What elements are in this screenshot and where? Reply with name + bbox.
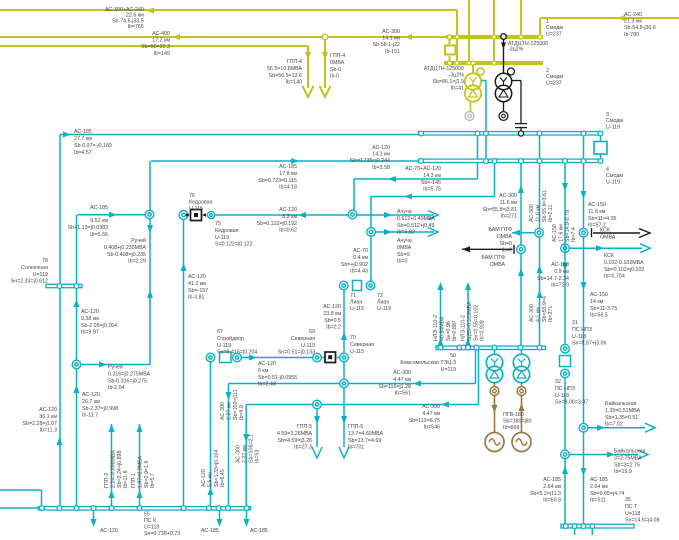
svg-text:Ib=561: Ib=561 xyxy=(395,391,411,397)
svg-text:Ib=60.9: Ib=60.9 xyxy=(543,498,561,504)
svg-text:U-119: U-119 xyxy=(606,179,620,185)
svg-text:13.7=4.69МВА: 13.7=4.69МВА xyxy=(348,431,383,437)
svg-text:АТДЦТН-125000: АТДЦТН-125000 xyxy=(424,66,464,72)
svg-text:АС-185: АС-185 xyxy=(279,164,297,170)
svg-text:76: 76 xyxy=(189,193,195,199)
svg-text:2.27 км: 2.27 км xyxy=(242,445,248,463)
svg-text:1.07=0.9МВА: 1.07=0.9МВА xyxy=(137,455,143,488)
svg-text:4.47 км: 4.47 км xyxy=(422,411,440,417)
svg-text:Ручей: Ручей xyxy=(108,364,123,371)
svg-text:Sн=2.33=j0.612: Sн=2.33=j0.612 xyxy=(11,279,48,285)
svg-text:-3ц2%: -3ц2% xyxy=(449,73,465,79)
svg-text:Ib=9.97: Ib=9.97 xyxy=(81,330,99,336)
svg-text:Sb-54.8-j30.6: Sb-54.8-j30.6 xyxy=(624,25,656,31)
svg-text:Sb=180=j80: Sb=180=j80 xyxy=(503,418,532,424)
svg-text:21.3 км: 21.3 км xyxy=(624,19,642,25)
svg-text:Ib=271: Ib=271 xyxy=(548,306,554,322)
svg-text:Sb=4.59=j3.26: Sb=4.59=j3.26 xyxy=(278,438,313,444)
svg-text:Ib=5.56: Ib=5.56 xyxy=(90,232,108,238)
svg-text:Кедровая: Кедровая xyxy=(215,228,239,234)
svg-text:Ib=27.3: Ib=27.3 xyxy=(294,445,312,451)
svg-text:50: 50 xyxy=(450,353,456,359)
svg-text:Sb-0: Sb-0 xyxy=(330,67,341,73)
svg-text:Sb=108=2.1: Sb=108=2.1 xyxy=(248,434,254,463)
svg-text:Смодм: Смодм xyxy=(606,118,623,124)
svg-text:Ib-151: Ib-151 xyxy=(385,49,400,55)
svg-text:26.7 км: 26.7 км xyxy=(82,399,100,405)
svg-text:Ib-780: Ib-780 xyxy=(624,32,639,38)
svg-text:U=119: U=119 xyxy=(441,367,456,373)
svg-text:17.6 км: 17.6 км xyxy=(558,224,564,242)
svg-text:АС-300: АС-300 xyxy=(529,304,535,322)
svg-text:АС-120: АС-120 xyxy=(372,145,390,151)
svg-text:Sн=0.51=j0.133: Sн=0.51=j0.133 xyxy=(278,350,315,356)
svg-text:ГПП-1: ГПП-1 xyxy=(131,473,137,488)
svg-text:55: 55 xyxy=(144,512,150,518)
svg-text:Sb=-145: Sb=-145 xyxy=(421,180,441,186)
svg-text:3: 3 xyxy=(606,112,609,118)
svg-text:0ц55=0.102МВА: 0ц55=0.102МВА xyxy=(467,301,473,341)
svg-text:Северная: Северная xyxy=(350,342,374,348)
svg-text:Sн=0.738+0.73: Sн=0.738+0.73 xyxy=(144,531,180,535)
svg-text:U=119: U=119 xyxy=(144,525,159,531)
svg-text:2.64 км: 2.64 км xyxy=(590,484,608,490)
svg-text:Sb=0.5: Sb=0.5 xyxy=(324,318,341,324)
svg-text:Смодм: Смодм xyxy=(606,173,623,179)
svg-text:АС-120: АС-120 xyxy=(81,309,99,315)
svg-text:АС-185: АС-185 xyxy=(543,477,561,483)
svg-text:АС-300: АС-300 xyxy=(422,404,440,410)
svg-text:Sb=0.735=j0.244: Sb=0.735=j0.244 xyxy=(350,158,390,164)
svg-text:U-119: U-119 xyxy=(606,124,620,130)
svg-text:4.1 км: 4.1 км xyxy=(535,307,541,322)
svg-text:ГПП-5: ГПП-5 xyxy=(297,424,312,430)
svg-text:8.3 км: 8.3 км xyxy=(282,214,297,220)
svg-text:АС-185: АС-185 xyxy=(74,129,92,135)
svg-text:Sb=0: Sb=0 xyxy=(397,252,410,258)
svg-text:Лиан: Лиан xyxy=(377,300,389,306)
svg-text:Смодм: Смодм xyxy=(546,74,563,80)
svg-text:Sb-0.316=j0.275: Sb-0.316=j0.275 xyxy=(108,378,147,384)
svg-text:АС-70+АС-120: АС-70+АС-120 xyxy=(405,166,441,172)
svg-text:ПС Т: ПС Т xyxy=(625,504,638,510)
svg-text:Ib=2.11: Ib=2.11 xyxy=(548,205,554,222)
svg-text:Ib=6.45: Ib=6.45 xyxy=(220,469,226,487)
svg-text:БАМ ПТФ: БАМ ПТФ xyxy=(481,255,505,261)
svg-text:Лиан: Лиан xyxy=(350,300,362,306)
svg-text:ПС НПЗ: ПС НПЗ xyxy=(555,386,575,392)
svg-text:69: 69 xyxy=(309,329,315,335)
svg-text:Ручей: Ручей xyxy=(131,237,146,244)
svg-text:70: 70 xyxy=(350,335,356,341)
svg-text:Ib=271: Ib=271 xyxy=(501,214,517,220)
svg-text:U-119: U-119 xyxy=(377,306,391,312)
svg-text:Ib-2.04: Ib-2.04 xyxy=(108,385,125,391)
svg-text:Sb-2.05=j0.264: Sb-2.05=j0.264 xyxy=(81,323,117,329)
svg-text:Ib=546: Ib=546 xyxy=(424,425,440,431)
svg-text:Sb=9.65=j4.74: Sb=9.65=j4.74 xyxy=(590,491,625,497)
svg-text:Ib=701: Ib=701 xyxy=(348,445,364,451)
svg-text:ГПП-4: ГПП-4 xyxy=(330,53,345,59)
svg-text:Sb=2.24=j0.898: Sb=2.24=j0.898 xyxy=(117,451,123,488)
svg-text:Ib=4.9: Ib=4.9 xyxy=(239,405,245,420)
svg-text:Ib=0.928: Ib=0.928 xyxy=(480,320,486,341)
svg-text:0.102-0.102МВА: 0.102-0.102МВА xyxy=(604,260,644,266)
svg-text:0МВА: 0МВА xyxy=(330,60,345,66)
svg-text:Sb=86.1=j1.9: Sb=86.1=j1.9 xyxy=(432,79,464,85)
svg-text:Sb=55.9=4: Sb=55.9=4 xyxy=(542,296,548,322)
svg-text:U=119: U=119 xyxy=(33,272,48,278)
svg-text:4: 4 xyxy=(606,167,609,173)
svg-text:0.408+j0.235МВА: 0.408+j0.235МВА xyxy=(104,245,147,251)
svg-text:Ib=0.704: Ib=0.704 xyxy=(604,274,625,280)
svg-text:Sb-58.1-j22: Sb-58.1-j22 xyxy=(373,42,400,48)
svg-text:Sb=0.122=j0.192: Sb=0.122=j0.192 xyxy=(257,221,297,227)
svg-text:67: 67 xyxy=(217,329,223,335)
svg-text:АС-185: АС-185 xyxy=(201,528,219,534)
svg-text:Кедровая: Кедровая xyxy=(189,200,213,206)
svg-text:Sb=1.33=j0.104: Sb=1.33=j0.104 xyxy=(214,450,220,487)
svg-text:Смодм: Смодм xyxy=(546,25,563,31)
svg-text:ГПП-2: ГПП-2 xyxy=(104,473,110,488)
svg-text:2.27 км: 2.27 км xyxy=(226,402,232,420)
svg-text:Sн=8.06=3.37: Sн=8.06=3.37 xyxy=(555,400,588,406)
svg-text:АС-120: АС-120 xyxy=(188,274,206,280)
svg-text:Ib=11.6: Ib=11.6 xyxy=(123,471,129,488)
svg-text:Ib=0.887: Ib=0.887 xyxy=(452,320,458,341)
svg-text:Ib=3.58: Ib=3.58 xyxy=(372,165,390,171)
svg-text:41.2 км: 41.2 км xyxy=(188,281,206,287)
svg-text:Sb=14.7-2.34: Sb=14.7-2.34 xyxy=(537,276,569,282)
svg-text:2: 2 xyxy=(546,68,549,74)
svg-text:АС-185: АС-185 xyxy=(90,205,108,211)
svg-text:11.6 км: 11.6 км xyxy=(500,200,518,206)
svg-text:АС-300: АС-300 xyxy=(236,445,242,463)
svg-text:АС-400: АС-400 xyxy=(152,31,170,37)
svg-text:Sb=2.9=1.6: Sb=2.9=1.6 xyxy=(144,461,150,488)
svg-text:40.84МВА: 40.84МВА xyxy=(439,316,445,341)
svg-text:Sb=56.5=13.6: Sb=56.5=13.6 xyxy=(269,73,302,79)
svg-text:Sb-55.9=3.61: Sb-55.9=3.61 xyxy=(542,190,548,222)
svg-text:Sb=55.8=j3.81: Sb=55.8=j3.81 xyxy=(483,207,518,213)
svg-text:ГПП-5: ГПП-5 xyxy=(348,424,363,430)
svg-text:ОМВА: ОМВА xyxy=(497,234,513,240)
svg-text:14.3 км: 14.3 км xyxy=(372,152,390,158)
svg-text:Ib=669: Ib=669 xyxy=(503,425,519,431)
svg-text:ГПП-4: ГПП-4 xyxy=(287,59,302,65)
svg-text:U-115: U-115 xyxy=(350,306,364,312)
svg-text:ПС К: ПС К xyxy=(144,518,157,524)
svg-text:ПС НПЗ: ПС НПЗ xyxy=(572,327,592,333)
svg-text:0.4 км: 0.4 км xyxy=(353,255,368,261)
svg-text:Sb=2.28=j1.07: Sb=2.28=j1.07 xyxy=(23,421,58,427)
svg-text:Sн=8.87+j3.06: Sн=8.87+j3.06 xyxy=(572,341,606,347)
svg-text:Ib=53: Ib=53 xyxy=(255,450,261,463)
svg-text:Sb=113=6.75: Sb=113=6.75 xyxy=(409,418,440,424)
svg-text:Ib=0: Ib=0 xyxy=(502,248,513,254)
svg-text:АС-150: АС-150 xyxy=(590,292,608,298)
svg-text:АС-185: АС-185 xyxy=(250,528,268,534)
svg-text:Ib=11.3: Ib=11.3 xyxy=(40,428,57,434)
svg-text:1.35=0.51МВА: 1.35=0.51МВА xyxy=(605,408,640,414)
svg-text:ПГВ-180: ПГВ-180 xyxy=(503,412,524,418)
svg-text:Sb=1.35=0.51: Sb=1.35=0.51 xyxy=(605,415,638,421)
svg-text:Sb=14.9-0.79: Sb=14.9-0.79 xyxy=(565,210,571,242)
svg-text:КСК: КСК xyxy=(604,253,615,259)
svg-text:АС-300: АС-300 xyxy=(529,204,535,222)
svg-text:27.7 км: 27.7 км xyxy=(74,136,92,142)
svg-text:U-119: U-119 xyxy=(215,235,229,241)
svg-text:Sн=14.6=j4.08: Sн=14.6=j4.08 xyxy=(625,518,659,524)
svg-text:Ib-0: Ib-0 xyxy=(330,74,339,80)
svg-text:U-115: U-115 xyxy=(189,206,203,212)
svg-text:11.6 км: 11.6 км xyxy=(535,204,541,222)
svg-text:Ib=57.2: Ib=57.2 xyxy=(588,223,606,229)
svg-text:9.52 км: 9.52 км xyxy=(90,218,108,224)
svg-text:АС-150: АС-150 xyxy=(588,202,606,208)
svg-text:АС-240: АС-240 xyxy=(624,12,642,18)
svg-text:Sb-2.37=j0.998: Sb-2.37=j0.998 xyxy=(82,406,118,412)
svg-text:Ib=511: Ib=511 xyxy=(590,498,606,504)
svg-text:5.6 км: 5.6 км xyxy=(207,472,213,487)
svg-text:АС-120: АС-120 xyxy=(82,392,100,398)
svg-text:Ib=2.48: Ib=2.48 xyxy=(258,382,276,388)
svg-text:Sb=+j0.902: Sb=+j0.902 xyxy=(341,262,368,268)
svg-text:11.6 км: 11.6 км xyxy=(588,209,606,215)
svg-text:2.64 км: 2.64 км xyxy=(543,484,561,490)
svg-text:Sb=11=4.35: Sb=11=4.35 xyxy=(588,216,617,222)
svg-text:Ib-3.81: Ib-3.81 xyxy=(188,295,205,301)
svg-text:9.38 км: 9.38 км xyxy=(81,316,99,322)
svg-text:Ib=140: Ib=140 xyxy=(286,80,302,86)
svg-text:72: 72 xyxy=(377,293,383,299)
svg-text:АС-120: АС-120 xyxy=(100,528,118,534)
svg-text:Sb=0.102=j0.102: Sb=0.102=j0.102 xyxy=(604,267,644,273)
svg-text:Sb=3=2.75: Sb=3=2.75 xyxy=(614,462,640,468)
svg-text:Ib=3.82: Ib=3.82 xyxy=(397,230,415,236)
svg-text:14 км: 14 км xyxy=(590,299,604,305)
svg-text:Sb=0.723=0.115: Sb=0.723=0.115 xyxy=(258,178,297,184)
svg-text:17.2 км: 17.2 км xyxy=(152,38,170,44)
svg-text:Ib=5.75: Ib=5.75 xyxy=(423,187,441,193)
svg-text:U=237: U=237 xyxy=(546,80,562,86)
svg-text:Ib-11.7: Ib-11.7 xyxy=(82,413,98,419)
svg-text:Ib=41: Ib=41 xyxy=(451,86,464,92)
svg-text:Ib=72.9: Ib=72.9 xyxy=(551,283,569,289)
svg-text:S=0.122=j0.122: S=0.122=j0.122 xyxy=(215,242,252,248)
svg-text:14.1 км: 14.1 км xyxy=(382,36,400,42)
svg-text:0.316=j0.275МВА: 0.316=j0.275МВА xyxy=(108,371,151,377)
svg-text:АС-120: АС-120 xyxy=(258,361,276,367)
svg-text:АС-120: АС-120 xyxy=(39,407,57,413)
svg-text:НЛЭ-110-2: НЛЭ-110-2 xyxy=(461,315,467,341)
svg-text:U=237: U=237 xyxy=(546,31,562,37)
svg-text:1: 1 xyxy=(546,19,549,25)
svg-text:17.8 км: 17.8 км xyxy=(279,171,297,177)
svg-text:31: 31 xyxy=(572,320,578,326)
svg-text:Ib=56.5: Ib=56.5 xyxy=(590,313,608,319)
svg-text:Ib=0: Ib=0 xyxy=(397,259,408,265)
svg-text:Байкальская: Байкальская xyxy=(605,400,637,407)
svg-text:АС-185: АС-185 xyxy=(590,477,608,483)
svg-text:4.47 км: 4.47 км xyxy=(393,377,411,383)
svg-text:Байкальская: Байкальская xyxy=(614,448,646,455)
svg-text:Sb=0.51-j0.0955: Sb=0.51-j0.0955 xyxy=(258,375,297,381)
svg-text:U-118: U-118 xyxy=(555,393,569,399)
svg-text:АС-300: АС-300 xyxy=(220,402,226,420)
svg-text:АС-300: АС-300 xyxy=(382,29,400,35)
svg-text:Sb=-157: Sb=-157 xyxy=(188,288,208,294)
svg-text:Ачуча: Ачуча xyxy=(397,209,412,215)
svg-text:3=2.75МВА: 3=2.75МВА xyxy=(614,455,642,461)
svg-text:-3ц2%: -3ц2% xyxy=(508,47,524,53)
svg-text:АС-120: АС-120 xyxy=(323,304,341,310)
svg-text:U-119: U-119 xyxy=(301,343,315,349)
svg-text:2.24=0.898МВА: 2.24=0.898МВА xyxy=(110,450,116,488)
svg-text:56.5=10.8МВА: 56.5=10.8МВА xyxy=(267,66,302,72)
svg-text:23.8 км: 23.8 км xyxy=(323,311,341,317)
svg-text:Sb-0.408=j0.235: Sb-0.408=j0.235 xyxy=(107,252,146,258)
svg-text:Ib=149: Ib=149 xyxy=(154,51,170,57)
svg-text:U-118: U-118 xyxy=(572,334,586,340)
svg-text:Sн=0.96: Sн=0.96 xyxy=(446,321,452,341)
svg-text:АС-300: АС-300 xyxy=(393,370,411,376)
svg-text:Ib=4.18: Ib=4.18 xyxy=(279,185,297,191)
svg-text:АС-120: АС-120 xyxy=(279,207,297,213)
svg-text:Sн=0.55=0.102: Sн=0.55=0.102 xyxy=(473,305,479,341)
svg-text:0МВА: 0МВА xyxy=(397,245,412,251)
svg-text:Северная: Северная xyxy=(291,336,315,342)
svg-text:Sb=11-3.75: Sb=11-3.75 xyxy=(590,306,617,312)
svg-text:Sb-0.97=-j0.189: Sb-0.97=-j0.189 xyxy=(74,143,112,149)
svg-text:ОМВА: ОМВА xyxy=(490,262,506,268)
svg-text:Ib=5.7: Ib=5.7 xyxy=(150,473,156,488)
svg-text:БАМ ПТФ: БАМ ПТФ xyxy=(488,227,512,233)
svg-text:Sb=5.2=j11.3: Sb=5.2=j11.3 xyxy=(530,491,561,497)
svg-text:Ib=2.2: Ib=2.2 xyxy=(326,325,341,331)
svg-text:Ib=7.02: Ib=7.02 xyxy=(605,422,623,428)
svg-text:Sb=13.7=4.69: Sb=13.7=4.69 xyxy=(348,438,381,444)
svg-text:Sb=116=j1.28: Sb=116=j1.28 xyxy=(378,384,411,390)
svg-text:АС-150: АС-150 xyxy=(551,262,569,268)
svg-text:Sb=50=20.3: Sb=50=20.3 xyxy=(141,44,170,50)
svg-text:U-115: U-115 xyxy=(350,349,364,355)
svg-text:78: 78 xyxy=(42,258,48,264)
svg-text:71: 71 xyxy=(350,293,356,299)
svg-text:0.612+0.49МВА: 0.612+0.49МВА xyxy=(397,216,435,222)
svg-text:Ib=766: Ib=766 xyxy=(127,24,143,30)
svg-text:Стройдвор: Стройдвор xyxy=(217,335,244,342)
svg-text:U-119: U-119 xyxy=(217,343,231,349)
svg-text:Sb=102=j111: Sb=102=j111 xyxy=(233,389,239,420)
svg-text:АС-150: АС-150 xyxy=(552,224,558,242)
svg-text:Ачуча: Ачуча xyxy=(397,238,412,244)
svg-text:35: 35 xyxy=(625,497,631,503)
svg-text:U=118: U=118 xyxy=(625,511,640,517)
svg-text:Комсомольская ТЭЦ-3: Комсомольская ТЭЦ-3 xyxy=(400,360,456,366)
svg-text:4.59=3.26МВА: 4.59=3.26МВА xyxy=(277,431,312,437)
svg-text:0.9 км: 0.9 км xyxy=(554,269,569,275)
svg-text:36.1 км: 36.1 км xyxy=(39,414,57,420)
svg-text:6 км: 6 км xyxy=(258,368,269,374)
svg-text:14.3 км: 14.3 км xyxy=(423,173,441,179)
svg-text:АС-70: АС-70 xyxy=(353,248,368,254)
svg-text:НЛЭ-110-2: НЛЭ-110-2 xyxy=(433,315,439,341)
svg-text:Солнечная: Солнечная xyxy=(21,265,48,271)
svg-text:Ib=19.9: Ib=19.9 xyxy=(614,469,632,475)
svg-text:Ib=2.29: Ib=2.29 xyxy=(128,259,146,265)
svg-text:Sb=0.512+j0.49: Sb=0.512+j0.49 xyxy=(397,223,434,229)
svg-text:Ib=0.62: Ib=0.62 xyxy=(279,228,297,234)
svg-text:АС-300: АС-300 xyxy=(499,193,517,199)
svg-text:Sн=0.416=j0.204: Sн=0.416=j0.204 xyxy=(217,350,257,356)
svg-text:ОМВА: ОМВА xyxy=(600,234,616,240)
svg-text:АС-120: АС-120 xyxy=(201,469,207,487)
svg-text:Ib=7.4: Ib=7.4 xyxy=(571,227,577,242)
svg-text:Sb=0: Sb=0 xyxy=(499,241,512,247)
svg-text:Sb+1.13=j0.0383: Sb+1.13=j0.0383 xyxy=(68,225,108,231)
svg-text:75: 75 xyxy=(215,221,221,227)
svg-text:Ib=4.57: Ib=4.57 xyxy=(74,150,92,156)
svg-text:Ib=4.43: Ib=4.43 xyxy=(350,269,368,275)
svg-text:32: 32 xyxy=(555,379,561,385)
